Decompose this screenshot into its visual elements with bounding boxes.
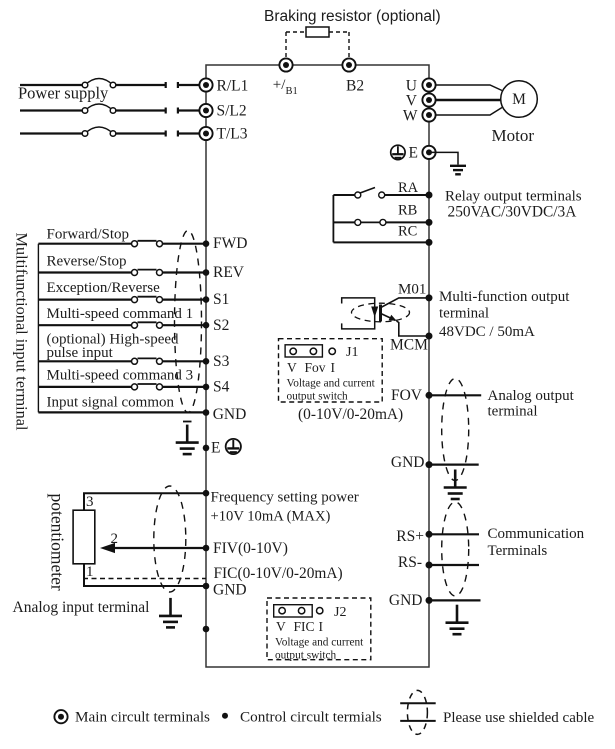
svg-text:terminal: terminal <box>439 306 489 322</box>
svg-text:Communication: Communication <box>488 526 585 542</box>
svg-text:GND: GND <box>213 406 247 423</box>
svg-text:Voltage and current: Voltage and current <box>287 378 376 390</box>
svg-text:terminal: terminal <box>488 404 538 420</box>
svg-text:B2: B2 <box>346 78 364 95</box>
svg-text:GND: GND <box>389 592 423 609</box>
svg-text:Reverse/Stop: Reverse/Stop <box>47 254 127 270</box>
svg-text:2: 2 <box>111 531 119 547</box>
svg-text:FIV(0-10V): FIV(0-10V) <box>213 540 288 557</box>
svg-text:(0-10V/0-20mA): (0-10V/0-20mA) <box>298 406 403 423</box>
svg-text:+10V 10mA (MAX): +10V 10mA (MAX) <box>211 509 331 525</box>
svg-text:Multi-function output: Multi-function output <box>439 289 570 305</box>
svg-text:R/L1: R/L1 <box>217 78 249 95</box>
svg-text:Relay output terminals: Relay output terminals <box>445 189 582 205</box>
svg-text:Exception/Reverse: Exception/Reverse <box>47 280 161 296</box>
svg-text:Analog output: Analog output <box>488 388 575 404</box>
svg-text:W: W <box>403 108 418 125</box>
svg-text:output switch: output switch <box>275 650 337 662</box>
svg-text:FIC(0-10V/0-20mA): FIC(0-10V/0-20mA) <box>214 565 343 582</box>
svg-text:Multi-speed command 1: Multi-speed command 1 <box>47 306 194 322</box>
svg-text:J1: J1 <box>346 345 358 360</box>
svg-text:Terminals: Terminals <box>488 543 548 559</box>
svg-text:RS-: RS- <box>398 554 422 571</box>
svg-text:Multi-speed command 3: Multi-speed command 3 <box>47 368 194 384</box>
svg-text:S2: S2 <box>213 317 229 334</box>
svg-text:Analog input terminal: Analog input terminal <box>13 599 150 616</box>
svg-text:Motor: Motor <box>492 126 535 145</box>
svg-text:FOV: FOV <box>391 387 423 404</box>
svg-text:S/L2: S/L2 <box>217 103 247 120</box>
svg-text:J2: J2 <box>334 605 346 620</box>
svg-text:+/B1: +/B1 <box>273 77 298 97</box>
svg-text:V: V <box>276 619 286 634</box>
svg-text:S1: S1 <box>213 291 229 308</box>
svg-text:FIC: FIC <box>294 619 315 634</box>
svg-text:MCM: MCM <box>390 337 428 354</box>
svg-text:S4: S4 <box>213 378 230 395</box>
svg-text:Braking resistor (optional): Braking resistor (optional) <box>264 8 441 25</box>
svg-text:Frequency setting power: Frequency setting power <box>211 490 359 506</box>
svg-text:S3: S3 <box>213 353 230 370</box>
svg-text:Please use shielded cable: Please use shielded cable <box>443 710 595 726</box>
svg-text:GND: GND <box>391 454 425 471</box>
svg-text:E: E <box>211 440 220 457</box>
svg-text:I: I <box>319 619 324 634</box>
svg-text:RB: RB <box>398 203 417 219</box>
svg-text:RC: RC <box>398 224 417 240</box>
svg-text:V: V <box>287 360 297 375</box>
svg-text:Voltage and current: Voltage and current <box>275 637 364 649</box>
svg-text:Power supply: Power supply <box>18 84 109 103</box>
svg-text:T/L3: T/L3 <box>217 126 248 143</box>
svg-text:FWD: FWD <box>213 235 247 252</box>
svg-text:1: 1 <box>86 564 94 580</box>
svg-text:RA: RA <box>398 180 419 196</box>
svg-text:250VAC/30VDC/3A: 250VAC/30VDC/3A <box>448 204 577 221</box>
svg-text:M01: M01 <box>398 282 426 298</box>
svg-text:Input signal common: Input signal common <box>47 395 175 411</box>
svg-text:I: I <box>331 360 336 375</box>
svg-text:3: 3 <box>86 494 94 510</box>
svg-text:GND: GND <box>213 582 247 599</box>
svg-text:Control circult termials: Control circult termials <box>240 709 382 726</box>
svg-text:M: M <box>512 91 526 108</box>
svg-text:potentiometer: potentiometer <box>48 494 68 591</box>
svg-text:RS+: RS+ <box>396 528 424 545</box>
svg-text:Fov: Fov <box>305 360 326 375</box>
svg-text:pulse input: pulse input <box>47 345 114 361</box>
svg-text:E: E <box>409 145 418 162</box>
svg-text:Main circult terminals: Main circult terminals <box>75 709 210 726</box>
svg-text:REV: REV <box>213 264 245 281</box>
svg-text:output switch: output switch <box>287 391 349 403</box>
svg-text:Multifunctional input terminal: Multifunctional input terminal <box>13 233 32 432</box>
svg-text:Forward/Stop: Forward/Stop <box>47 227 130 243</box>
svg-text:48VDC / 50mA: 48VDC / 50mA <box>439 324 535 340</box>
